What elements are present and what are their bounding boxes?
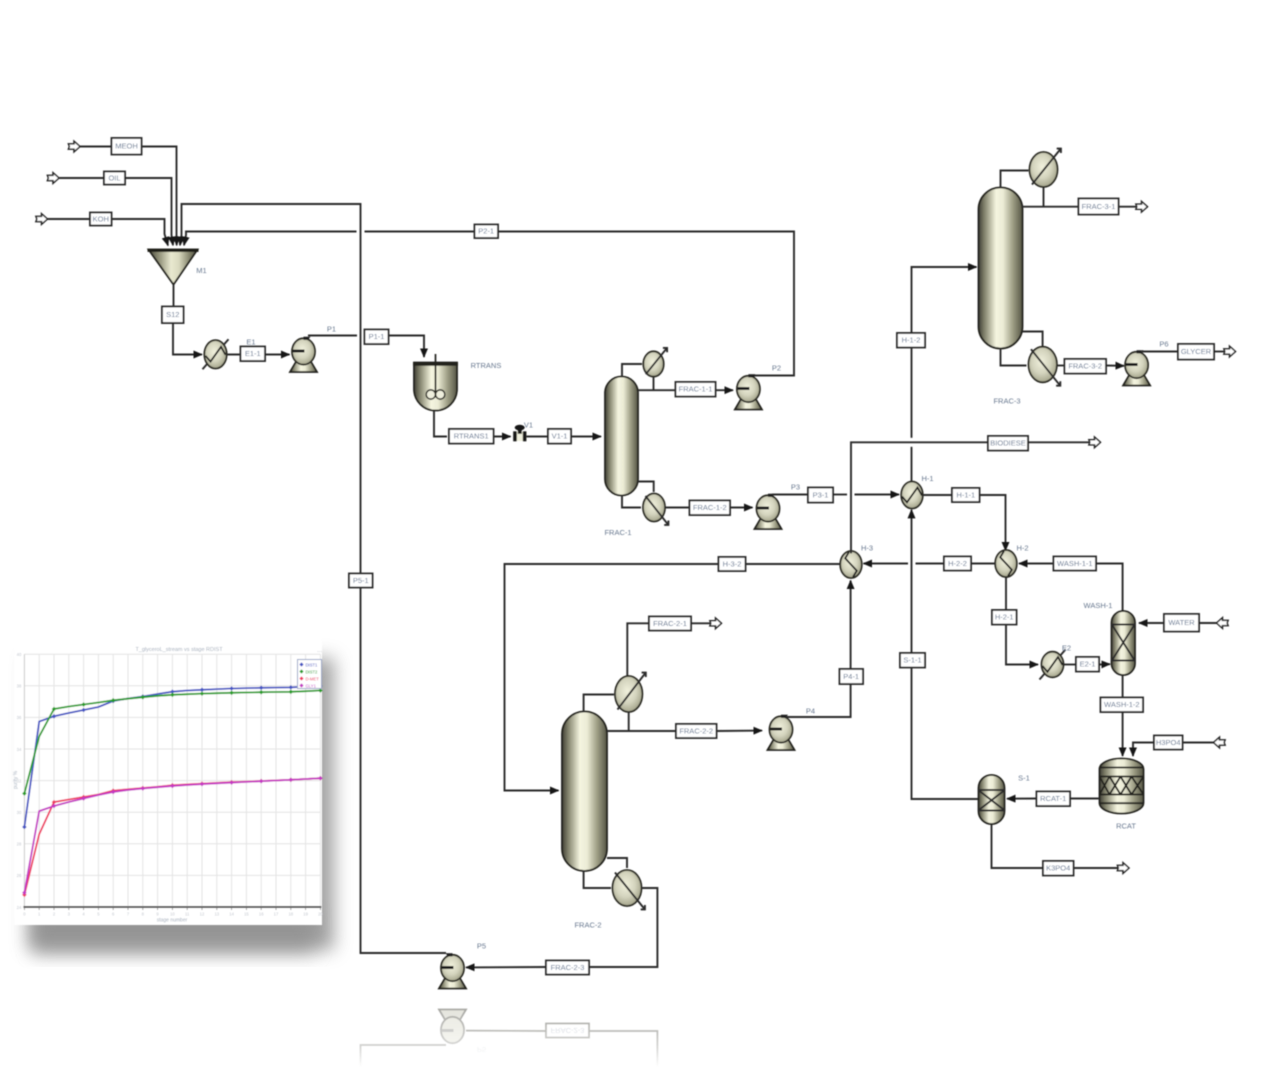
stream label KOH: [90, 213, 112, 226]
heat exchanger H-1: [901, 482, 923, 509]
stream S12: M1 outlet: [173, 285, 175, 307]
svg-text:H-1-2: H-1-2: [902, 336, 921, 345]
svg-text:16: 16: [259, 912, 264, 917]
svg-text:FRAC-1: FRAC-1: [604, 528, 631, 537]
stream label OIL: [104, 172, 125, 185]
svg-text:FRAC-2-3: FRAC-2-3: [551, 963, 585, 972]
chart inset shadow: [28, 658, 334, 950]
stream label P5-1: [349, 574, 373, 588]
chart gridlines: [24, 654, 320, 907]
svg-text:34: 34: [17, 747, 22, 752]
heater E1: [203, 339, 229, 369]
pump P4: [768, 715, 795, 750]
wire RCAT to S-1, stream RCAT-1: [1070, 798, 1100, 800]
svg-text:S-1-1: S-1-1: [903, 656, 921, 665]
reactor RCAT: [1100, 759, 1144, 814]
svg-text:P5: P5: [477, 942, 486, 951]
stream label H-3-2: [719, 557, 746, 571]
svg-text:FRAC-3-2: FRAC-3-2: [1068, 362, 1102, 371]
wire RTRANS outlet, stream RTRANS1: [434, 411, 447, 437]
wire H-1 to FRAC-3, stream H-1-2 (gap at biodiese crossing): [911, 447, 913, 482]
stream label FRAC-3-1: [1079, 199, 1119, 215]
stream label MEOH: [112, 138, 142, 155]
reboiler FRAC-2: [613, 870, 645, 909]
wire H-2 to E2, stream H-2-1: [1005, 577, 1007, 610]
svg-text:WATER: WATER: [1168, 618, 1195, 627]
svg-text:V1-1: V1-1: [552, 432, 568, 441]
reflection of flowsheet bottom edge: [361, 1010, 658, 1067]
wire H-3 to FRAC-2, stream H-3-2: [746, 563, 841, 565]
wire S-1 to H-1, stream S-1-1: [912, 668, 979, 800]
svg-text:P4: P4: [806, 707, 815, 716]
svg-text:36: 36: [17, 715, 22, 720]
wire P6 to GLYCER, stream GLYCER: [1141, 351, 1178, 353]
wire WASH-1 bottoms, stream WASH-1-2: [1122, 675, 1124, 698]
stream label H3PO4: [1154, 736, 1183, 750]
chart series green: [22, 688, 323, 796]
chart series magenta: [22, 776, 323, 895]
stream label RCAT-1: [1037, 792, 1071, 807]
svg-text:P2-1: P2-1: [478, 227, 494, 236]
svg-text:DIST2: DIST2: [306, 670, 319, 675]
svg-text:GLY1: GLY1: [306, 684, 317, 689]
condenser FRAC-1: [643, 348, 667, 377]
chart series red: [22, 776, 323, 897]
stream label H-1-1: [952, 488, 980, 502]
stream label K3PO4: [1043, 861, 1074, 876]
stream label FRAC-1-2: [690, 501, 731, 516]
svg-text:24: 24: [17, 905, 22, 910]
svg-text:H-3: H-3: [861, 544, 873, 553]
stream label E2-1: [1076, 657, 1099, 672]
svg-text:E1-1: E1-1: [245, 349, 261, 358]
svg-text:11: 11: [185, 912, 190, 917]
svg-text:K3PO4: K3PO4: [1046, 864, 1070, 873]
wire H3PO4 to RCAT: [1183, 742, 1214, 744]
heat exchanger H-3: [840, 551, 862, 578]
stream label BIODIESE: [988, 436, 1028, 451]
svg-text:E2-1: E2-1: [1080, 660, 1096, 669]
svg-text:FRAC-1-2: FRAC-1-2: [693, 503, 727, 512]
svg-text:T_glyceroL_stream vs stage R: T_glyceroL_stream vs stage RDIST: [135, 647, 223, 653]
reboiler FRAC-3: [1029, 347, 1061, 386]
pump P2: [735, 374, 762, 409]
sink FRAC-3-1: [1136, 201, 1148, 212]
wire WATER to WASH-1: [1199, 622, 1217, 624]
svg-text:OIL: OIL: [108, 173, 120, 182]
stream label P3-1: [808, 488, 833, 503]
svg-text:18: 18: [288, 912, 293, 917]
wire P4 to H-3, stream P4-1: [786, 684, 851, 717]
wire WASH-1 to H-2, stream WASH-1-1: [1096, 564, 1123, 612]
wire FRAC-2 vent, stream FRAC-2-1: [627, 623, 649, 675]
svg-text:E2: E2: [1062, 644, 1071, 653]
svg-text:M1: M1: [196, 266, 206, 275]
column FRAC-3: [979, 188, 1023, 349]
svg-text:15: 15: [244, 912, 249, 917]
wire FRAC-2 top vapor: [584, 695, 614, 713]
svg-text:purity %: purity %: [13, 770, 19, 789]
source MEOH: [68, 141, 80, 152]
svg-text:FRAC-2-2: FRAC-2-2: [679, 726, 713, 735]
svg-text:KOH: KOH: [93, 214, 109, 223]
stream label V1-1: [548, 429, 571, 444]
svg-text:38: 38: [17, 684, 22, 689]
wire P5-1 recycle: [180, 204, 446, 953]
wire H-2 to H-3, stream H-2-2 (gap at x=911.5): [971, 563, 995, 565]
svg-text:WASH-1-1: WASH-1-1: [1057, 559, 1093, 568]
stream label WASH-1-1: [1054, 557, 1097, 571]
sink BIODIESE: [1089, 437, 1101, 448]
wire H-3 to BIODIESE sink: [851, 442, 988, 553]
svg-text:WASH-1: WASH-1: [1084, 601, 1113, 610]
wire P1 to RTRANS, stream P1-1: [308, 335, 357, 337]
stream label S12: [162, 307, 184, 324]
chart x axis: [23, 906, 321, 908]
svg-text:H-1-1: H-1-1: [956, 490, 975, 499]
mixer M1: [148, 250, 199, 285]
wire V1 to FRAC-1, stream V1-1: [527, 436, 549, 438]
column WASH-1 (extractor): [1112, 611, 1136, 675]
svg-text:BIODIESE: BIODIESE: [990, 439, 1025, 448]
wire KOH feed: [48, 219, 169, 246]
stream label WASH-1-2: [1101, 698, 1144, 713]
wire FRAC-3 bottoms, stream FRAC-3-2: [1057, 365, 1065, 367]
reboiler FRAC-1: [643, 494, 668, 525]
svg-text:20: 20: [318, 912, 323, 917]
wire FRAC-3 reboiler connections: [1023, 332, 1043, 347]
svg-text:GLYCER: GLYCER: [1181, 347, 1212, 356]
svg-text:19: 19: [303, 912, 308, 917]
svg-text:S12: S12: [166, 310, 179, 319]
svg-text:RTRANS: RTRANS: [471, 361, 502, 370]
svg-text:FRAC-1-1: FRAC-1-1: [679, 385, 713, 394]
svg-text:stage number: stage number: [157, 918, 188, 924]
stream label RTRANS1: [449, 429, 494, 444]
svg-text:P4-1: P4-1: [843, 672, 859, 681]
separator S-1: [979, 775, 1005, 824]
stream label P1-1: [365, 330, 389, 345]
column FRAC-1: [605, 377, 638, 496]
svg-text:S-1: S-1: [1018, 774, 1030, 783]
wire S-1 bottoms, stream K3PO4: [992, 824, 1044, 868]
svg-text:RTRANS1: RTRANS1: [454, 432, 489, 441]
svg-text:FRAC-2-1: FRAC-2-1: [653, 619, 687, 628]
svg-text:10: 10: [170, 912, 175, 917]
stream label H-1-2: [897, 333, 925, 348]
chart inset panel: [14, 638, 322, 925]
wire E1 to P1, stream E1-1: [227, 354, 290, 356]
stream label FRAC-3-2: [1065, 359, 1107, 374]
stream label WATER: [1164, 614, 1199, 632]
svg-text:WASH-1-2: WASH-1-2: [1104, 700, 1140, 709]
wire OIL feed: [59, 178, 173, 245]
wire FRAC-2 distillate, stream FRAC-2-2: [628, 712, 630, 731]
svg-text:H-3-2: H-3-2: [723, 559, 742, 568]
sink GLYCER: [1224, 346, 1236, 357]
wire FRAC-3 top vapor: [1001, 171, 1029, 189]
svg-text:P6: P6: [1159, 340, 1168, 349]
condenser FRAC-3: [1030, 149, 1061, 187]
stream label FRAC-2-1: [649, 617, 691, 631]
svg-text:14: 14: [229, 912, 234, 917]
sink FRAC-2-1: [710, 618, 722, 629]
reactor RTRANS: [413, 354, 458, 411]
svg-text:FRAC-2: FRAC-2: [574, 921, 601, 930]
svg-text:P3: P3: [791, 483, 800, 492]
stream label P2-1: [475, 225, 499, 239]
svg-text:13: 13: [214, 912, 219, 917]
heat exchanger H-2: [995, 550, 1017, 577]
stream label H-2-2: [944, 557, 971, 571]
stream label GLYCER: [1178, 344, 1214, 360]
wire H-1 to H-2, stream H-1-1: [923, 494, 952, 496]
wire MEOH feed: [80, 147, 177, 246]
svg-text:DIST1: DIST1: [306, 663, 319, 668]
pump P6: [1123, 350, 1150, 385]
wire P2-1 recycle: [365, 232, 795, 376]
svg-text:...: ...: [317, 648, 322, 654]
wire P3 to H-1, stream P3-1: [772, 494, 808, 496]
svg-text:D-MET: D-MET: [306, 677, 320, 682]
stream label S-1-1: [900, 653, 925, 668]
svg-text:H-2: H-2: [1016, 544, 1028, 553]
wire FRAC-1 bottoms, stream FRAC-1-2: [665, 507, 690, 509]
pump P3: [755, 494, 782, 529]
svg-text:30: 30: [17, 810, 22, 815]
wire FRAC-2 bottoms, stream FRAC-2-3: [589, 888, 657, 967]
sink K3PO4: [1117, 863, 1129, 874]
wire E2 to WASH-1, stream E2-1: [1064, 664, 1076, 666]
condenser FRAC-2: [615, 673, 646, 712]
svg-text:MEOH: MEOH: [115, 142, 138, 151]
source H3PO4: [1214, 737, 1226, 748]
stream label FRAC-2-2: [676, 724, 717, 738]
svg-text:P2: P2: [772, 364, 781, 373]
svg-text:P3-1: P3-1: [813, 490, 829, 499]
chart series blue: [22, 684, 323, 830]
svg-text:40: 40: [17, 652, 22, 657]
wire FRAC-1 reboiler connections: [638, 482, 654, 493]
stream label FRAC-2-3: [546, 961, 589, 975]
svg-text:12: 12: [200, 912, 205, 917]
svg-text:FRAC-2-3: FRAC-2-3: [551, 1026, 585, 1035]
svg-text:RCAT-1: RCAT-1: [1040, 794, 1066, 803]
wire FRAC-1 top vapor to condenser: [622, 364, 642, 377]
source WATER: [1217, 618, 1229, 629]
wire FRAC-1 distillate, stream FRAC-1-1: [653, 377, 655, 390]
stream label FRAC-1-1: [676, 382, 716, 397]
svg-text:P5-1: P5-1: [353, 576, 369, 585]
stream label E1-1: [241, 347, 266, 362]
chart legend: [298, 660, 322, 689]
svg-text:FRAC-3-1: FRAC-3-1: [1082, 202, 1116, 211]
svg-text:28: 28: [17, 842, 22, 847]
pump P5: [439, 953, 466, 988]
svg-text:P1: P1: [327, 325, 336, 334]
svg-text:H3PO4: H3PO4: [1156, 738, 1181, 747]
column FRAC-2: [562, 712, 607, 872]
svg-text:17: 17: [274, 912, 279, 917]
valve V1: [513, 425, 526, 441]
svg-text:P5: P5: [477, 1045, 486, 1054]
svg-text:H-1: H-1: [921, 474, 933, 483]
svg-text:RCAT: RCAT: [1116, 822, 1136, 831]
source KOH: [36, 214, 48, 225]
wire FRAC-2 reboiler connections: [607, 858, 627, 868]
svg-text:H-2-2: H-2-2: [948, 559, 967, 568]
svg-text:H-2-1: H-2-1: [995, 613, 1014, 622]
svg-text:V1: V1: [524, 421, 533, 430]
stream label P4-1: [840, 669, 864, 684]
svg-text:FRAC-3: FRAC-3: [993, 397, 1020, 406]
svg-text:26: 26: [17, 873, 22, 878]
stream label H-2-1: [992, 610, 1017, 625]
svg-text:E1: E1: [246, 338, 255, 347]
wire FRAC-3 distillate, stream FRAC-3-1: [1043, 187, 1045, 207]
source OIL: [47, 173, 59, 184]
heater E2: [1040, 650, 1066, 680]
svg-text:P1-1: P1-1: [369, 332, 385, 341]
pump P1: [290, 337, 317, 372]
